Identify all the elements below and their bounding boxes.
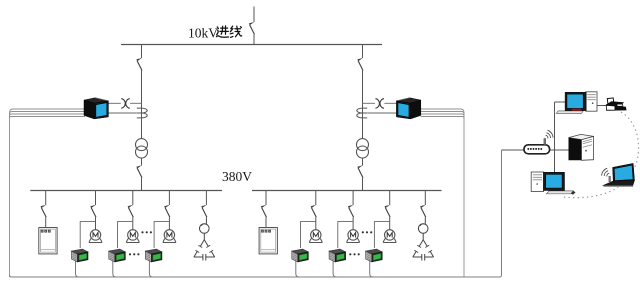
svg-text:380V: 380V <box>222 169 252 184</box>
svg-text:10kV: 10kV <box>188 26 218 41</box>
